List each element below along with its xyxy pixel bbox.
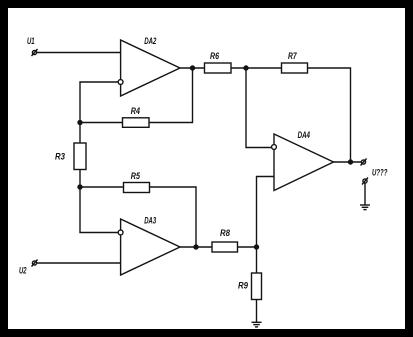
op-amp DA2 [118,36,180,96]
resistor R3 [55,143,86,170]
wire node C to DA3 inverting input [80,187,118,233]
wire U1 to DA2 non-inverting input [37,52,121,54]
svg-text:R4: R4 [131,106,140,116]
junction DA4 output node [349,160,353,164]
wire node D to R9 [256,247,258,273]
junction DA3 output node [194,245,198,249]
svg-text:DA4: DA4 [298,130,310,140]
svg-text:R3: R3 [55,152,65,162]
junction node D [255,245,259,249]
wire DA4 output to terminal [334,161,362,163]
ground (bottom) [252,322,262,327]
terminal ground reference [362,178,368,185]
resistor R5 [124,171,150,193]
op-amp DA4 [272,130,334,191]
wire DA3 output to R8 [180,246,212,248]
junction DA2 output node [191,66,195,70]
svg-text:DA2: DA2 [144,36,156,46]
svg-text:U1: U1 [27,36,35,46]
svg-text:R7: R7 [288,51,297,61]
wire R8 to node D [238,246,257,248]
junction node C [78,185,82,189]
resistor R9 [238,273,262,300]
svg-text:R5: R5 [131,171,141,181]
resistor R8 [212,228,238,252]
wire DA2 output to R6 [180,67,205,69]
svg-text:R6: R6 [210,51,220,61]
svg-text:U???: U??? [372,167,388,177]
svg-text:R8: R8 [220,228,230,238]
wire R9 to ground [256,300,258,323]
wire terminal to ground [364,183,366,205]
resistor R7 [282,51,308,73]
svg-text:U2: U2 [19,266,27,276]
op-amp DA3 [118,216,180,275]
junction node B [244,66,248,70]
wire R7 to DA4 output node [308,68,351,162]
wire node C to R5 [80,186,124,188]
wire node B to DA4 inverting input [246,68,271,148]
terminal U??? output [361,159,388,178]
wire node A to R3 [79,123,81,144]
wire R6 to R7 [231,67,282,69]
wire DA2 inverting input to node A [80,82,118,123]
resistor R4 [123,106,150,127]
resistor R6 [205,51,232,73]
wire R4 to DA2 output node [149,68,193,123]
svg-text:DA3: DA3 [144,216,156,226]
wire R5 to DA3 output node [150,187,197,247]
wire node A to R4 [80,122,123,124]
ground (output reference) [360,205,370,210]
terminal U2 [19,260,38,276]
svg-text:R9: R9 [238,281,248,291]
wire R3 to node C [79,170,81,188]
terminal U1 [27,36,38,56]
wire U2 to DA3 non-inverting input [37,262,121,264]
wire node D to DA4 non-inverting input [257,177,275,248]
junction node A [78,121,82,125]
